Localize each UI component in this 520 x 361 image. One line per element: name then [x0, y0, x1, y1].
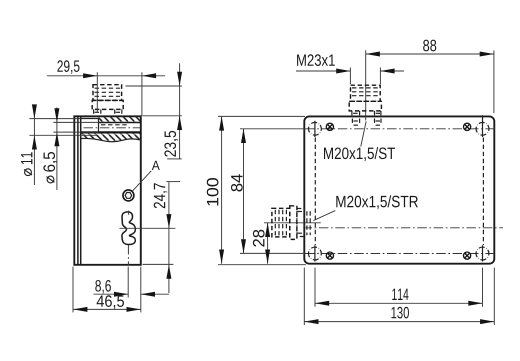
- plug thread line 1: [95, 87, 120, 89]
- hidden gland dash d: [376, 124, 381, 126]
- cover plate line 1: [77, 116, 79, 264]
- side connector M20 STR: ext/centre line: [264, 222, 321, 224]
- arrow 46,5 left: [73, 307, 87, 312]
- dimension 114: [392, 289, 408, 300]
- ext line 130 left: [303, 268, 305, 325]
- arrow ø6,5 top: [54, 108, 59, 122]
- arrow 29,5 left: [83, 73, 97, 78]
- dim line 8,6 left part: [94, 293, 129, 295]
- plug nut tick 4: [121, 109, 123, 115]
- ext line M23x1 left: [349, 68, 351, 85]
- arrow 23,5 bottom: [177, 116, 182, 130]
- ext line 84 bottom: [240, 252, 305, 254]
- arrow M23x1 left: [336, 69, 350, 74]
- ext line 29,5 left: [96, 72, 98, 112]
- dimension 28: [267, 223, 269, 264]
- top connector nut tick 3: [374, 111, 376, 117]
- hidden gland hole tick 3: [374, 119, 376, 126]
- text 24,7: [154, 183, 168, 208]
- cover screw top-right: [464, 123, 471, 130]
- mounting hole top-right: [474, 115, 492, 138]
- ext line ø6,5 top: [53, 121, 98, 123]
- dimension 24,7: [168, 182, 170, 293]
- text ø11: [21, 152, 32, 175]
- dimension 8,6: [95, 280, 111, 294]
- ext line M23x1 right: [379, 68, 381, 85]
- plug nut tick 2: [100, 109, 102, 115]
- cover screw top-left: [326, 123, 333, 130]
- arrow ø11 bottom: [32, 135, 37, 149]
- arrow 114 right: [468, 301, 482, 306]
- hidden hole inside box tick 1: [306, 211, 308, 235]
- dimension ø11: [33, 105, 35, 186]
- plug body: [93, 85, 122, 101]
- ext line 100 top: [218, 115, 305, 117]
- text 84: [231, 174, 243, 191]
- dimension 88: [423, 40, 436, 52]
- gland bore centre line: [84, 127, 141, 129]
- top connector nut tick 2: [359, 111, 361, 117]
- side connector thread line 2: [278, 210, 280, 236]
- arrow 28 bottom: [265, 250, 270, 264]
- top connector M23 centre line: [365, 50, 367, 120]
- mounting hole top-left: [306, 120, 324, 138]
- ext line body left: [72, 267, 74, 313]
- ext line 100 bottom: [218, 264, 306, 266]
- side connector nut dash a: [298, 211, 304, 213]
- plug nut dash b: [116, 111, 121, 113]
- gland section: thread top boundary line: [99, 122, 141, 124]
- hidden gland hole tick 2: [359, 119, 361, 126]
- housing body outline: [74, 116, 141, 264]
- dim line 46,5: [73, 308, 141, 310]
- arrow 100 top: [219, 116, 224, 130]
- hidden gland dash b: [376, 120, 381, 122]
- dim line M23x1 right: [380, 70, 404, 72]
- cover screw bottom-right: [464, 252, 471, 259]
- ext line slot centre: [127, 267, 129, 298]
- hidden hole inside box tick 2: [309, 211, 311, 235]
- label A: [152, 161, 160, 170]
- arrow 46,5 right: [127, 307, 141, 312]
- ext line ø6,5 bottom: [53, 131, 98, 133]
- side connector thread line 3: [282, 210, 284, 236]
- mounting hole bottom-right: [474, 245, 492, 263]
- arrow 130 right: [480, 319, 494, 324]
- dim line 114: [315, 302, 483, 304]
- arrow 114 left: [315, 301, 329, 306]
- text 100: [207, 178, 219, 206]
- side connector nut dash b: [298, 232, 304, 234]
- top connector thread line 1: [352, 87, 379, 89]
- text 23,5: [164, 131, 178, 157]
- plug thread line 3: [95, 95, 120, 97]
- dim line 130: [304, 321, 494, 323]
- dimension 29,5: [57, 60, 79, 74]
- dimension 84: [243, 129, 245, 254]
- hex socket: [125, 193, 132, 199]
- arrow 8,6 right: [141, 292, 155, 297]
- ext line 23,5 top: [126, 85, 182, 87]
- gland section: bore bottom thick line: [81, 131, 141, 133]
- break (wavy) line: [81, 138, 141, 141]
- centre line side gland: [306, 227, 504, 229]
- dimension 23,5: [179, 63, 181, 159]
- cover screw bottom-left: [326, 252, 333, 259]
- leader line to A: [132, 171, 151, 192]
- dashed column right: [482, 138, 484, 246]
- screw head A (hex socket): [123, 190, 134, 201]
- arrow 100 bottom: [219, 250, 224, 264]
- plug nut tick 3: [114, 109, 116, 115]
- leader ST: [361, 122, 366, 147]
- plug nut tick 1: [93, 109, 95, 115]
- top connector nut dash b: [376, 112, 380, 114]
- arrow 84 top: [241, 129, 246, 143]
- arrow 88 right: [480, 52, 494, 57]
- top connector nut dash a: [353, 112, 358, 114]
- box outline: [304, 116, 494, 263]
- label M20x1,5/ST: [324, 147, 395, 161]
- gland bore end cavity top edge: [81, 118, 99, 120]
- dimension 46,5: [97, 295, 124, 309]
- hidden gland hole below edge: tick 1: [351, 119, 353, 126]
- side connector body: [272, 208, 290, 237]
- ext line body bottom right: [143, 263, 174, 265]
- dim line 88: [366, 53, 494, 55]
- hidden gland dash a: [354, 120, 359, 122]
- ext line ø11 top: [29, 118, 80, 120]
- ext line 114 right: [482, 268, 484, 307]
- tick above 24,7: [166, 181, 180, 183]
- slot centre tick top: [128, 211, 130, 215]
- ext line 130 right: [493, 268, 495, 325]
- plug collar: [92, 100, 123, 109]
- text 28: [253, 230, 265, 247]
- arrow 88 left: [366, 52, 380, 57]
- arrow 130 left: [304, 319, 318, 324]
- side connector nut rect: [297, 209, 304, 237]
- ext line 24,7: [119, 227, 175, 229]
- plug nut dash a: [95, 111, 100, 113]
- top connector collar: [349, 101, 381, 111]
- arrow 24,7 lower (points up to body bottom): [166, 265, 171, 279]
- dimension M23x1: [297, 54, 335, 66]
- gland section: hidden thread dashes top: [101, 124, 128, 126]
- dashed column left: [314, 138, 316, 246]
- arrow 29,5 right: [142, 73, 156, 78]
- ext line 88 right: [493, 50, 495, 113]
- dimension 100: [221, 116, 223, 263]
- side connector collar: [290, 206, 297, 240]
- top connector thread line 2: [352, 91, 379, 93]
- side connector thread line 4: [285, 210, 287, 236]
- arrow 28 top: [265, 223, 270, 237]
- top connector nut tick 4: [380, 111, 382, 117]
- gland section: top hatch band: [99, 117, 141, 122]
- arrow M23x1 right: [380, 69, 394, 74]
- slot centre line bottom: [127, 245, 129, 266]
- cover plate line 2: [80, 116, 82, 264]
- gland section: bottom hatch band with break line: [81, 134, 141, 142]
- arrow 8,6: [114, 292, 128, 297]
- hidden gland hole tick 4: [380, 119, 382, 126]
- centre line top screw row: [305, 128, 495, 130]
- arrow 84 bottom: [241, 239, 246, 253]
- ext line 114 left: [314, 268, 316, 307]
- dim line 29,5: [47, 75, 165, 77]
- arrow ø11 top: [32, 104, 37, 118]
- ext line body right: [140, 267, 142, 313]
- ext line 29,5 right: [141, 72, 143, 116]
- label M20x1,5/STR: [336, 195, 418, 209]
- ext line 84 top: [240, 128, 305, 130]
- arrow 24,7: [166, 214, 171, 228]
- arrow ø6,5 bottom: [54, 132, 59, 146]
- mounting hole bottom-left: [306, 245, 324, 263]
- tick under 23,5: [167, 158, 182, 160]
- keyhole mounting slot: [122, 212, 135, 245]
- text ø6,5: [43, 152, 57, 183]
- ext line ø11 bottom: [29, 134, 97, 136]
- side connector thread line 1: [274, 210, 276, 236]
- dim line 8,6 right part: [141, 293, 169, 295]
- dim line M23x1 left: [296, 70, 350, 72]
- hidden gland dash c: [354, 124, 359, 126]
- centre line bottom screw row: [305, 253, 495, 255]
- plug thread line 2: [95, 91, 120, 93]
- arrow 23,5 top: [177, 72, 182, 86]
- top connector body: [351, 85, 381, 101]
- leader STR: [313, 211, 335, 221]
- ext line 23,5 bottom: [143, 115, 182, 117]
- dimension 130: [391, 307, 409, 319]
- top connector thread line 3: [352, 95, 379, 97]
- gland bore end cavity right edge: [98, 119, 100, 133]
- top connector nut tick 1: [351, 111, 353, 117]
- dimension ø6,5: [56, 108, 58, 191]
